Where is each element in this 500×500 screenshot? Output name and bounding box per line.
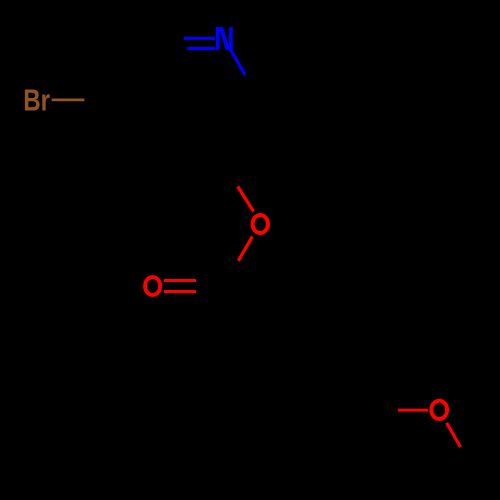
svg-text:Br: Br: [23, 83, 50, 118]
bond C3'-O3 (ring to methoxy oxygen): [398, 409, 428, 412]
bond C5-O1 (ester oxygen upper bond): [238, 186, 254, 211]
atom label N: [216, 27, 233, 50]
bond N=C2 inner line: [187, 47, 215, 50]
bond C7=O2 bottom line: [164, 290, 196, 293]
bond N-C6: [230, 48, 245, 75]
bond O3-CH3 (methoxy oxygen to methyl): [447, 423, 461, 447]
atom label O1 (ester oxygen): [253, 215, 268, 233]
atom label O2 (carbonyl oxygen): [145, 277, 160, 295]
bond N=C2 main line: [184, 37, 215, 40]
bond Br-C3: [52, 99, 85, 102]
bond O1-C7 (ester oxygen to carbonyl carbon): [238, 236, 252, 260]
atom label O3 (methoxy oxygen): [431, 401, 447, 419]
bond C7=O2 top line: [164, 279, 196, 282]
